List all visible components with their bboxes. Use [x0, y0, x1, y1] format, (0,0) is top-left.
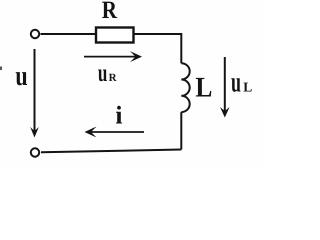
- voltage arrow uL (stem): [224, 57, 226, 112]
- svg-text:L: L: [195, 73, 212, 104]
- voltage arrow uR (stem): [84, 56, 136, 58]
- terminal (bottom-left): [31, 148, 39, 156]
- voltage arrow u (head, down): [30, 127, 39, 138]
- inductor L coil: [181, 63, 189, 112]
- resistor R: [96, 28, 134, 43]
- svg-text:u: u: [98, 60, 108, 87]
- svg-text:L: L: [243, 80, 252, 95]
- svg-text:u: u: [231, 67, 241, 99]
- voltage arrow uR (head, right): [130, 51, 142, 62]
- svg-text:R: R: [109, 72, 118, 84]
- svg-text:R: R: [102, 0, 118, 24]
- voltage arrow u (stem): [34, 49, 36, 132]
- svg-text:u: u: [15, 61, 27, 92]
- wire top-right: resistor to corner, down to coil: [135, 34, 182, 63]
- terminal (top-left): [31, 30, 39, 38]
- svg-text:i: i: [115, 100, 122, 129]
- current arrow i (stem): [91, 131, 144, 133]
- scan speck at left edge: [0, 67, 2, 71]
- current arrow i (head, left): [85, 127, 97, 138]
- wire right-bottom: coil to corner: [180, 112, 182, 149]
- wire top: terminal to resistor: [41, 33, 96, 35]
- wire bottom: corner to terminal: [41, 150, 181, 153]
- voltage arrow uL (head, down): [220, 107, 230, 118]
